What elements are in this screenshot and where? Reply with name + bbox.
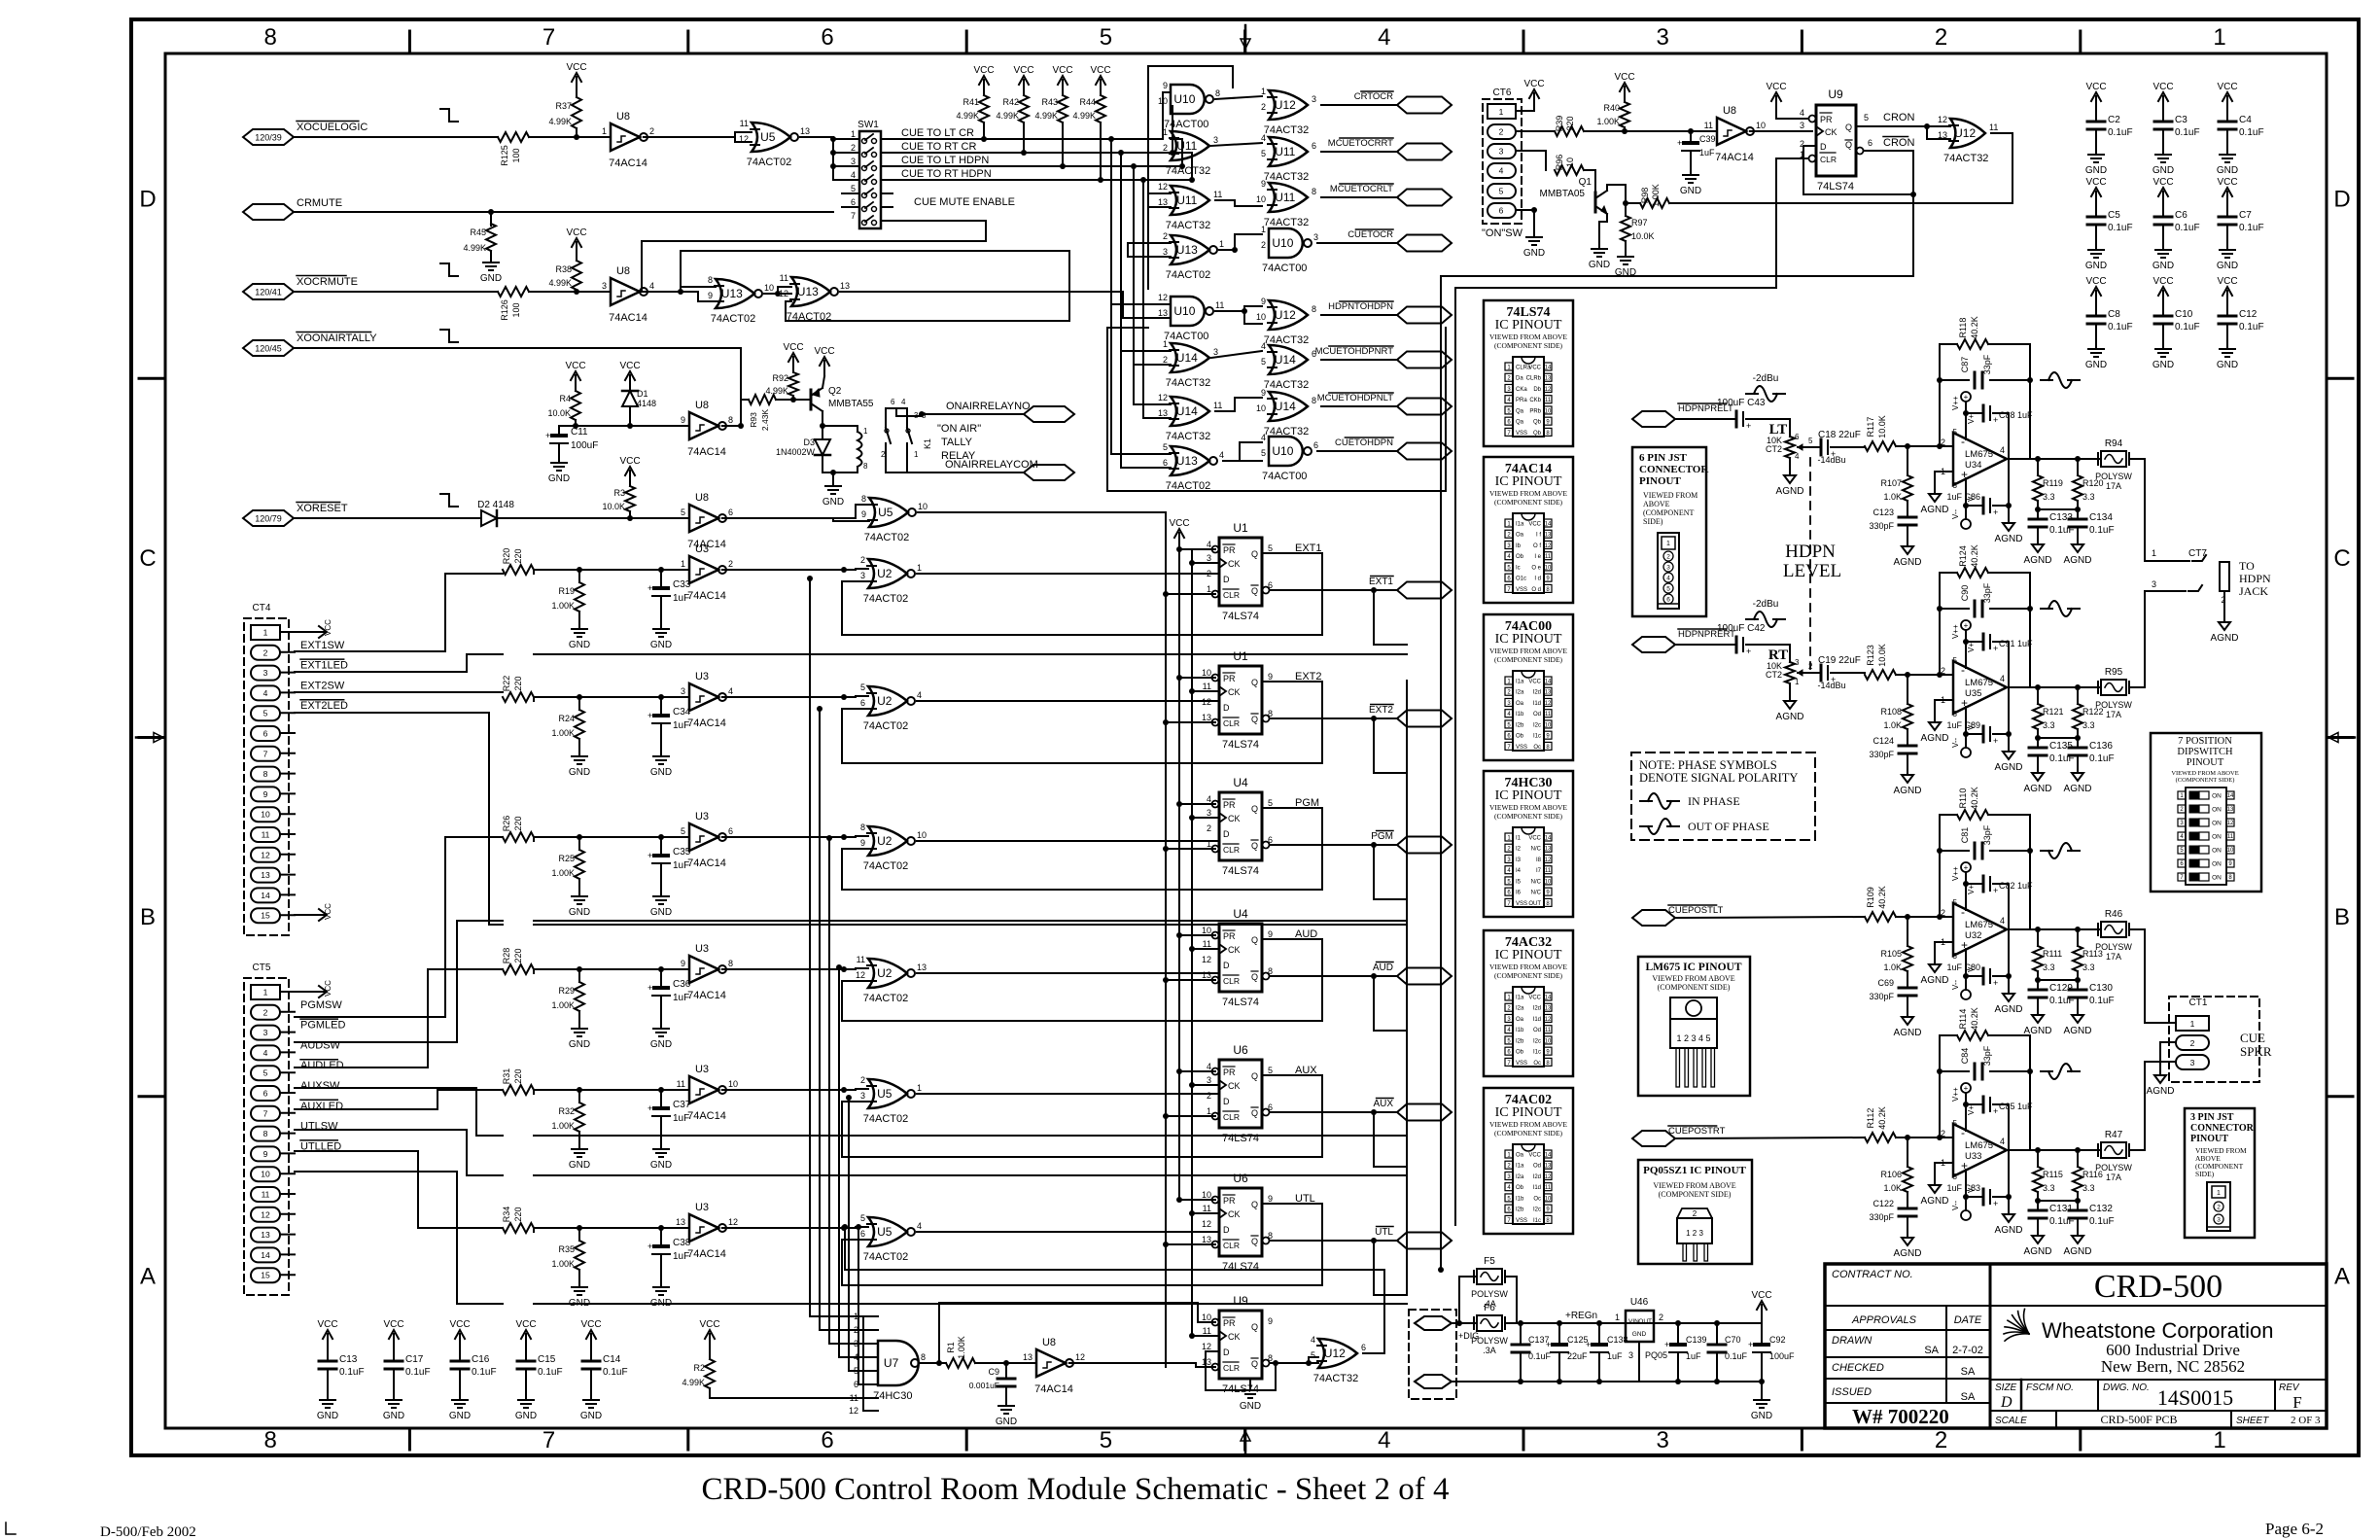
svg-text:CT4: CT4 xyxy=(253,603,271,613)
wire inverting input U33 xyxy=(1930,1137,1953,1138)
svg-text:GND: GND xyxy=(569,907,590,918)
wire U9b Q8 to U12d xyxy=(1270,1362,1318,1364)
svg-text:ON: ON xyxy=(2212,821,2222,827)
capacitor C90 33pF xyxy=(1974,601,1977,616)
svg-text:CHECKED: CHECKED xyxy=(1832,1362,1884,1374)
svg-text:9: 9 xyxy=(1163,81,1168,90)
svg-text:XOONAIRTALLY: XOONAIRTALLY xyxy=(297,332,377,344)
svg-text:U1: U1 xyxy=(1233,649,1248,663)
svg-text:6: 6 xyxy=(1313,440,1318,450)
capacitor C87 33pF xyxy=(1974,372,1977,388)
svg-text:10: 10 xyxy=(1256,403,1266,413)
net CRTOCR output tag xyxy=(1397,97,1452,114)
svg-text:Ob: Ob xyxy=(1516,1185,1524,1191)
svg-text:+: + xyxy=(1964,621,1969,630)
svg-text:Q: Q xyxy=(1251,1237,1258,1246)
svg-text:11: 11 xyxy=(1215,300,1224,310)
svg-text:11: 11 xyxy=(780,273,788,283)
svg-text:3.3: 3.3 xyxy=(2043,1183,2055,1193)
nor gate U2 74ACT02 EXT1 xyxy=(868,559,907,588)
svg-text:U3: U3 xyxy=(695,671,709,682)
svg-text:+: + xyxy=(1746,421,1751,431)
svg-text:C6: C6 xyxy=(2175,210,2187,221)
svg-text:VCC: VCC xyxy=(2085,177,2106,188)
svg-text:40.2K: 40.2K xyxy=(1970,316,1979,339)
diode D2 4148 xyxy=(481,510,497,526)
svg-text:R4: R4 xyxy=(559,394,571,403)
wire EXT2LED to R23 xyxy=(295,712,489,714)
resistor R31 220 xyxy=(503,1085,534,1095)
svg-text:GND: GND xyxy=(822,497,844,507)
svg-text:R97: R97 xyxy=(1631,218,1648,227)
svg-text:9: 9 xyxy=(860,838,865,848)
svg-text:1.0K: 1.0K xyxy=(1883,720,1902,730)
net AUX output tag xyxy=(1397,1104,1452,1121)
svg-text:2: 2 xyxy=(1207,1091,1211,1101)
gate U14 74ACT32 pins 1,2->3 xyxy=(1171,343,1209,372)
svg-text:CLR: CLR xyxy=(1820,155,1837,164)
inverter U8d 74AC14 xyxy=(689,505,718,532)
svg-text:AGND: AGND xyxy=(1921,1196,1949,1207)
wire EXT1LED to R21 xyxy=(295,671,467,673)
svg-text:2: 2 xyxy=(1163,231,1168,241)
svg-text:Ic: Ic xyxy=(1516,565,1521,571)
svg-text:11: 11 xyxy=(1203,939,1211,949)
svg-text:VIEWED FROM ABOVE: VIEWED FROM ABOVE xyxy=(1489,1120,1567,1129)
svg-text:0.1uF: 0.1uF xyxy=(2239,127,2264,138)
svg-text:EXT2LED: EXT2LED xyxy=(300,700,348,712)
svg-text:0.1uF: 0.1uF xyxy=(405,1367,431,1378)
wire MCUETOCRLT xyxy=(1321,196,1397,198)
net CUETOCR output tag xyxy=(1397,235,1452,252)
svg-text:10: 10 xyxy=(261,810,270,820)
wire U3 out EXT1 xyxy=(722,569,856,571)
power V++ U32 xyxy=(1961,862,1971,872)
note 74AC32 IC pinout box xyxy=(1484,930,1573,1076)
wire U12a out loop xyxy=(1991,132,2012,134)
svg-text:U2: U2 xyxy=(877,694,892,708)
agnd C136 xyxy=(2077,765,2079,773)
ground C39 xyxy=(1690,167,1692,175)
svg-text:GND: GND xyxy=(1632,1331,1647,1338)
svg-text:4.99K: 4.99K xyxy=(765,386,788,396)
svg-text:CK: CK xyxy=(1228,687,1241,697)
svg-text:PINOUT: PINOUT xyxy=(2187,757,2224,768)
svg-text:D: D xyxy=(1820,142,1827,152)
note 3 PIN JST connector pinout box xyxy=(2185,1108,2255,1238)
wire XOCRMUTE xyxy=(294,291,498,293)
wire channel column verticals to U7 xyxy=(809,578,811,1316)
svg-text:4.99K: 4.99K xyxy=(956,111,979,121)
svg-text:O d: O d xyxy=(1531,587,1541,593)
svg-text:Page 6-2: Page 6-2 xyxy=(2265,1520,2324,1538)
svg-text:MCUETOCRLT: MCUETOCRLT xyxy=(1330,184,1393,194)
svg-text:HDPN: HDPN xyxy=(2239,572,2271,585)
svg-text:R45: R45 xyxy=(470,227,486,237)
connector power input dashed xyxy=(1409,1310,1456,1399)
svg-text:1: 1 xyxy=(1261,225,1266,234)
wire QB to LED feedback EXT2 xyxy=(1373,718,1375,773)
svg-text:13: 13 xyxy=(676,1217,685,1227)
svg-text:CUETOCR: CUETOCR xyxy=(1347,229,1393,240)
nor gate U13b 74ACT02 xyxy=(791,277,830,306)
op-amp U34 LM675 xyxy=(1953,433,2007,485)
capacitor C133 0.1uF xyxy=(2037,509,2039,519)
svg-text:100uF: 100uF xyxy=(1769,1351,1795,1361)
svg-text:VIEWED FROM ABOVE: VIEWED FROM ABOVE xyxy=(1652,974,1734,983)
svg-text:R38: R38 xyxy=(555,264,572,274)
svg-text:F5: F5 xyxy=(1484,1256,1495,1267)
svg-text:12: 12 xyxy=(261,850,270,859)
svg-text:Q: Q xyxy=(1845,122,1852,132)
svg-text:4148: 4148 xyxy=(637,399,656,408)
agnd C132 xyxy=(2077,1228,2079,1236)
svg-text:1: 1 xyxy=(1261,87,1266,96)
svg-text:5: 5 xyxy=(851,184,856,193)
svg-text:REV: REV xyxy=(2279,1382,2300,1393)
svg-text:GND: GND xyxy=(569,1039,590,1050)
svg-text:7: 7 xyxy=(542,24,555,51)
svg-text:U5: U5 xyxy=(760,130,776,144)
power VCC C4 xyxy=(2226,96,2228,112)
wire U3 out AUX xyxy=(722,1089,856,1091)
svg-text:3: 3 xyxy=(1657,24,1669,51)
svg-text:9: 9 xyxy=(1268,929,1273,939)
svg-text:100uF C43: 100uF C43 xyxy=(1717,398,1766,408)
svg-text:1: 1 xyxy=(2213,24,2225,51)
svg-text:Q: Q xyxy=(1251,841,1258,851)
agnd C69 xyxy=(1907,1009,1908,1017)
svg-text:C82 1uF: C82 1uF xyxy=(1999,881,2033,891)
capacitor C17 0.1uF xyxy=(393,1349,395,1361)
svg-text:U34: U34 xyxy=(1965,460,1981,471)
svg-text:I1c: I1c xyxy=(1533,1050,1541,1056)
svg-text:74AC14: 74AC14 xyxy=(687,857,726,869)
svg-text:F6: F6 xyxy=(1484,1303,1495,1313)
svg-text:3 PIN JST: 3 PIN JST xyxy=(2190,1112,2234,1123)
wire flipflop control stubs EXT1 xyxy=(1179,548,1215,550)
wire flipflop control stubs AUD xyxy=(1179,934,1215,936)
svg-text:U2: U2 xyxy=(877,966,892,980)
svg-text:12: 12 xyxy=(1545,1174,1552,1180)
svg-text:I2: I2 xyxy=(1516,847,1522,853)
svg-text:Q2: Q2 xyxy=(828,386,842,397)
ground Q1 emitter xyxy=(1606,214,1608,222)
svg-text:R31: R31 xyxy=(502,1068,511,1085)
wire QB to LED feedback UTL xyxy=(1373,1241,1375,1295)
svg-text:14: 14 xyxy=(1545,1153,1552,1159)
svg-text:Oa: Oa xyxy=(1516,533,1524,539)
svg-text:2: 2 xyxy=(1935,24,1947,51)
svg-text:Ob: Ob xyxy=(1516,1050,1524,1056)
svg-text:11: 11 xyxy=(740,119,749,128)
svg-text:-2dBu: -2dBu xyxy=(1753,599,1779,610)
svg-text:LM675: LM675 xyxy=(1965,920,1993,930)
svg-text:U13: U13 xyxy=(1176,243,1198,257)
fuse F6 POLYSW .3A xyxy=(1459,1322,1476,1324)
svg-text:4.99K: 4.99K xyxy=(1072,111,1096,121)
resistor R1 1.00K xyxy=(946,1358,975,1368)
svg-text:10: 10 xyxy=(918,502,927,511)
svg-text:5: 5 xyxy=(860,1213,865,1223)
ground C4 xyxy=(2226,147,2228,155)
svg-text:V+: V+ xyxy=(1967,643,1976,652)
svg-text:2.43K: 2.43K xyxy=(760,409,770,432)
wire AUXSW to row xyxy=(295,1108,437,1110)
wire QB to LED feedback EXT1 xyxy=(1373,590,1375,645)
svg-text:R2: R2 xyxy=(693,1363,705,1373)
op-amp U33 LM675 xyxy=(1953,1124,2007,1176)
svg-text:U8: U8 xyxy=(695,400,709,411)
svg-text:CLR: CLR xyxy=(1223,845,1240,855)
svg-text:8: 8 xyxy=(860,822,865,832)
svg-text:VCC: VCC xyxy=(1523,79,1544,89)
note LM675 IC pinout box xyxy=(1638,957,1750,1096)
svg-text:SA: SA xyxy=(1924,1345,1939,1356)
capacitor C92 100uF xyxy=(1761,1323,1763,1345)
svg-text:(COMPONENT SIDE): (COMPONENT SIDE) xyxy=(1658,983,1731,992)
wire U3 out UTL xyxy=(722,1227,856,1229)
svg-text:2: 2 xyxy=(860,1075,865,1085)
svg-text:6: 6 xyxy=(263,1089,268,1099)
svg-text:R37: R37 xyxy=(555,101,572,111)
resistor R41 4.99K xyxy=(979,95,989,122)
svg-text:4.99K: 4.99K xyxy=(996,111,1019,121)
wire VCC vertical bus xyxy=(1178,544,1180,1200)
wire CT4 pin15 VCC xyxy=(295,914,313,916)
wire CUETOCR xyxy=(1317,242,1397,244)
svg-text:New Bern, NC 28562: New Bern, NC 28562 xyxy=(2101,1357,2245,1376)
svg-text:GND: GND xyxy=(569,1160,590,1171)
svg-text:EXT2: EXT2 xyxy=(1369,705,1393,716)
power VCC C6 xyxy=(2162,192,2164,207)
svg-text:I3: I3 xyxy=(1516,857,1522,863)
svg-text:74LS74: 74LS74 xyxy=(1222,1261,1259,1273)
svg-text:4: 4 xyxy=(1207,1062,1211,1071)
svg-text:VCC: VCC xyxy=(449,1319,470,1330)
svg-text:CT2: CT2 xyxy=(1766,444,1782,454)
svg-text:15: 15 xyxy=(261,1271,270,1280)
svg-text:+: + xyxy=(1677,138,1682,148)
svg-text:11: 11 xyxy=(1989,122,1998,132)
ground R19 xyxy=(578,621,580,629)
svg-text:10: 10 xyxy=(1545,722,1552,728)
svg-text:5: 5 xyxy=(1953,1119,1958,1128)
svg-text:AGND: AGND xyxy=(1921,975,1949,986)
wire Q1 collector xyxy=(1606,185,1608,191)
svg-text:Q: Q xyxy=(1845,140,1852,150)
svg-text:+: + xyxy=(545,431,550,440)
svg-text:1: 1 xyxy=(1207,839,1211,849)
svg-text:GND: GND xyxy=(2217,165,2238,176)
svg-text:12: 12 xyxy=(2227,821,2234,826)
svg-text:8: 8 xyxy=(264,24,277,51)
svg-text:VCC: VCC xyxy=(324,619,332,636)
wire LT RT HDPN output to CT7 xyxy=(2144,459,2146,561)
svg-text:VSS: VSS xyxy=(1516,431,1527,437)
svg-text:74ACT02: 74ACT02 xyxy=(863,1251,908,1263)
wire Q feedback UTL xyxy=(1262,1203,1322,1205)
svg-text:C19 22uF: C19 22uF xyxy=(1818,655,1861,666)
svg-text:R43: R43 xyxy=(1041,97,1058,107)
svg-text:+: + xyxy=(1964,863,1969,872)
svg-text:SHEET: SHEET xyxy=(2236,1416,2269,1426)
svg-text:2 OF 3: 2 OF 3 xyxy=(2291,1415,2321,1426)
wire inverting input U34 xyxy=(1930,445,1953,447)
svg-text:I1d: I1d xyxy=(1533,1185,1541,1191)
svg-text:U4: U4 xyxy=(1233,776,1248,789)
svg-text:74ACT02: 74ACT02 xyxy=(863,593,908,605)
svg-text:R107: R107 xyxy=(1880,478,1902,488)
ground C12 xyxy=(2226,341,2228,349)
capacitor C91 1uF xyxy=(1966,641,1983,643)
gate U14 74ACT32 pins 12,13->11 xyxy=(1171,397,1209,426)
svg-text:5: 5 xyxy=(1808,437,1813,445)
inverter U8f 74AC14 xyxy=(1717,118,1746,145)
svg-text:74LS74: 74LS74 xyxy=(1817,181,1854,192)
svg-text:2: 2 xyxy=(1659,1312,1663,1322)
power V- U34 xyxy=(1961,519,1971,529)
svg-text:3: 3 xyxy=(851,157,856,166)
power VCC C10 xyxy=(2162,291,2164,306)
nor gate U5b 74ACT02 xyxy=(869,498,908,527)
capacitor C5 0.1uF xyxy=(2095,202,2097,217)
svg-text:MMBTA05: MMBTA05 xyxy=(1540,189,1586,199)
svg-text:10: 10 xyxy=(1202,1190,1211,1200)
svg-text:4: 4 xyxy=(851,170,856,180)
svg-text:U14: U14 xyxy=(1275,400,1296,413)
svg-text:Qa: Qa xyxy=(1516,420,1524,426)
svg-text:11: 11 xyxy=(1213,401,1222,410)
agnd C135 xyxy=(2037,765,2039,773)
svg-text:3: 3 xyxy=(1953,952,1958,961)
resistor R107 1.0K shunt xyxy=(1907,446,1908,475)
ground R32 xyxy=(578,1141,580,1149)
svg-text:V++: V++ xyxy=(1951,1087,1960,1102)
wire EXT1SW to row xyxy=(295,650,445,652)
svg-text:Qb: Qb xyxy=(1533,431,1542,437)
capacitor C122 330pF xyxy=(1907,1192,1908,1208)
wire U8c out xyxy=(722,425,741,427)
resistor R32 1.00K xyxy=(578,1090,580,1102)
capacitor C36 1uF xyxy=(660,969,662,988)
svg-text:VCC: VCC xyxy=(1528,366,1541,371)
svg-text:LM675: LM675 xyxy=(1965,678,1993,688)
fuse R94 POLYSW 17A xyxy=(2101,451,2126,467)
wire MCUETOHDPNRT xyxy=(1321,359,1397,361)
resistor R93 2.43K xyxy=(749,395,776,404)
diode D3 1N4002W xyxy=(815,439,830,455)
svg-text:40.2K: 40.2K xyxy=(1970,544,1979,568)
inverter U3 74AC14 PGM xyxy=(689,823,718,851)
svg-text:C84: C84 xyxy=(1960,1048,1970,1065)
wire CRMUTE xyxy=(294,211,833,213)
svg-text:GND: GND xyxy=(996,1417,1017,1427)
resistor R45 xyxy=(490,212,492,226)
svg-text:VIEWED FROM ABOVE: VIEWED FROM ABOVE xyxy=(1489,332,1567,341)
wire SW1 row5 row6 stubs xyxy=(842,192,859,194)
svg-text:U13: U13 xyxy=(1176,454,1198,468)
ground power rail xyxy=(1759,1379,1765,1384)
svg-text:C123: C123 xyxy=(1872,507,1894,517)
nor gate U2 74ACT02 PGM xyxy=(868,826,907,856)
svg-text:I7: I7 xyxy=(1536,868,1542,874)
svg-text:4: 4 xyxy=(649,281,654,291)
svg-text:CUE TO RT CR: CUE TO RT CR xyxy=(901,141,976,153)
svg-text:2: 2 xyxy=(1499,127,1504,137)
wire XOCUELOGIC xyxy=(294,136,498,138)
svg-text:CLR: CLR xyxy=(1223,1241,1240,1250)
ground R97 xyxy=(1625,249,1627,257)
svg-text:D-500/Feb 2002: D-500/Feb 2002 xyxy=(100,1524,196,1540)
wire QB to LED feedback PGM xyxy=(1373,845,1375,899)
svg-text:I1b: I1b xyxy=(1516,1196,1524,1202)
svg-text:120/39: 120/39 xyxy=(255,133,282,143)
svg-text:R106: R106 xyxy=(1880,1170,1902,1179)
svg-text:10: 10 xyxy=(1202,926,1211,935)
svg-text:1: 1 xyxy=(2190,1019,2195,1029)
wire nor out to flipflop D UTL xyxy=(917,1231,1219,1233)
svg-text:12: 12 xyxy=(779,289,788,298)
svg-text:R98: R98 xyxy=(1640,188,1650,204)
svg-text:2: 2 xyxy=(1666,554,1670,561)
svg-text:3: 3 xyxy=(681,686,685,696)
svg-text:IC PINOUT: IC PINOUT xyxy=(1495,632,1562,647)
svg-text:AUDLED: AUDLED xyxy=(300,1060,344,1071)
wheatstone logo xyxy=(2004,1309,2029,1341)
svg-text:POLYSW: POLYSW xyxy=(2095,1163,2132,1172)
svg-text:U8: U8 xyxy=(695,492,709,504)
wire QB out AUX xyxy=(1270,1111,1397,1113)
svg-text:6: 6 xyxy=(851,197,856,207)
wire U3 out AUD xyxy=(722,968,856,970)
svg-text:3: 3 xyxy=(1953,1172,1958,1181)
resistor R115 3.3 xyxy=(2037,1150,2039,1167)
fuse R46 POLYSW 17A xyxy=(2101,922,2126,937)
wire QB to LED feedback AUD xyxy=(1373,976,1375,1031)
resistor R121 3.3 xyxy=(2037,687,2039,704)
svg-text:CLR: CLR xyxy=(1223,718,1240,728)
svg-text:12: 12 xyxy=(1202,1342,1211,1351)
power VCC R4 xyxy=(575,375,577,391)
svg-text:Q: Q xyxy=(1251,549,1258,559)
power V- U33 xyxy=(1961,1210,1971,1220)
svg-text:6: 6 xyxy=(1499,206,1504,216)
svg-text:ABOVE: ABOVE xyxy=(1643,500,1670,508)
svg-text:4: 4 xyxy=(728,686,733,696)
svg-text:U11: U11 xyxy=(1275,145,1295,158)
svg-text:10: 10 xyxy=(764,283,774,293)
power VCC Q2 emitter xyxy=(823,361,825,376)
svg-text:8: 8 xyxy=(1312,187,1316,196)
svg-text:VCC: VCC xyxy=(619,361,640,371)
flip-flop U6 74LS74 AUX xyxy=(1219,1060,1262,1128)
svg-text:5: 5 xyxy=(263,1068,268,1078)
wire output U35 xyxy=(2035,684,2041,690)
svg-text:GND: GND xyxy=(650,907,672,918)
svg-text:1.00K: 1.00K xyxy=(551,868,575,878)
agnd C123 xyxy=(1907,539,1908,546)
svg-text:VIEWED FROM ABOVE: VIEWED FROM ABOVE xyxy=(1489,647,1567,655)
fuse R95 POLYSW 17A xyxy=(2101,680,2126,695)
resistor R92 xyxy=(788,372,798,396)
resistor R43 4.99K xyxy=(1058,95,1067,122)
svg-text:R111: R111 xyxy=(2043,949,2062,959)
ground C13 xyxy=(327,1392,329,1400)
wire flipflop control stubs UTL xyxy=(1179,1199,1215,1201)
svg-text:9: 9 xyxy=(263,789,268,799)
power VCC rail xyxy=(1761,1305,1763,1320)
